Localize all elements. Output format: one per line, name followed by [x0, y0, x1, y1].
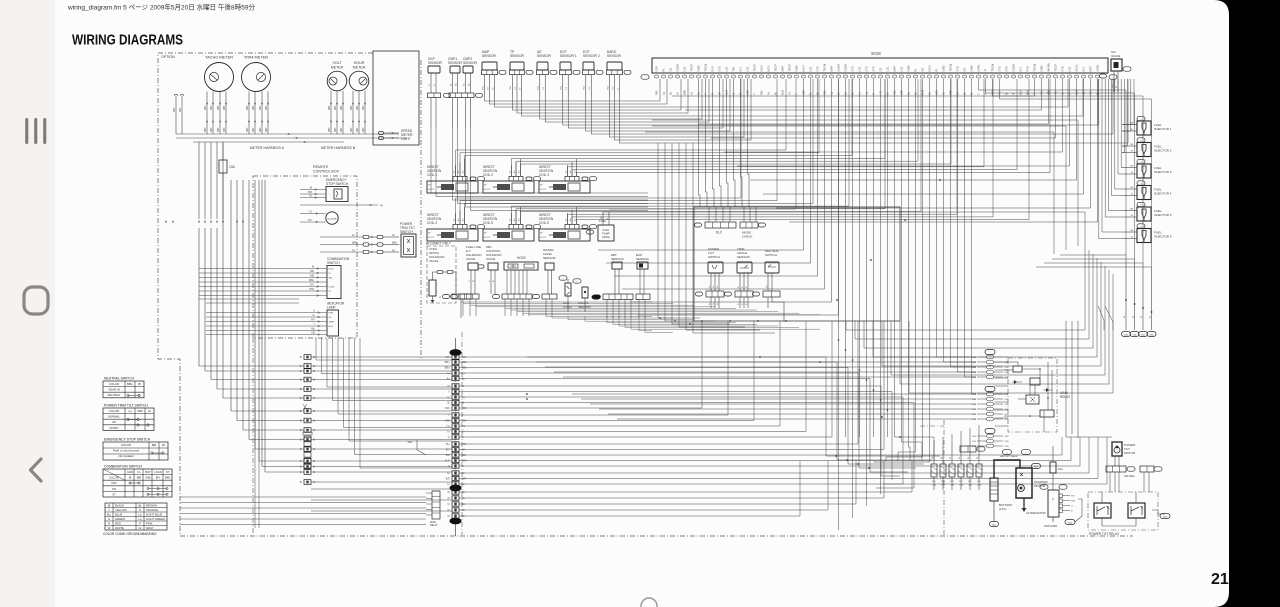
- 10A fuse near alternator: [1050, 462, 1056, 473]
- svg-text:SENSOR: SENSOR: [448, 61, 463, 65]
- svg-text:Br: Br: [313, 429, 316, 432]
- svg-text:METER HARNESS B: METER HARNESS B: [321, 146, 356, 150]
- svg-text:WBl: WBl: [1005, 362, 1010, 364]
- svg-text:GY: GY: [566, 86, 568, 90]
- svg-text:Br: Br: [300, 379, 303, 382]
- svg-text:WBl: WBl: [335, 105, 337, 110]
- svg-text:Bu: Bu: [510, 171, 512, 173]
- svg-text:FI.F: FI.F: [932, 481, 937, 483]
- svg-text:Gr: Gr: [447, 431, 450, 434]
- svg-text:Lg: Lg: [662, 92, 666, 95]
- svg-text:Bu: Bu: [669, 91, 673, 95]
- svg-text:SWITCH: SWITCH: [765, 253, 777, 257]
- svg-text:LOAD: LOAD: [154, 470, 162, 474]
- svg-text:STS: STS: [956, 66, 960, 71]
- svg-text:WBl: WBl: [357, 105, 359, 110]
- svg-text:FI.F: FI.F: [959, 481, 964, 483]
- svg-text:BlY: BlY: [446, 450, 450, 452]
- svg-text:BlBu: BlBu: [445, 362, 451, 364]
- svg-text:Gr: Gr: [462, 472, 465, 475]
- svg-text:WHITE: WHITE: [115, 526, 124, 530]
- svg-text:STS: STS: [865, 66, 869, 71]
- svg-text:WBl: WBl: [972, 367, 977, 369]
- svg-text:TDCP: TDCP: [690, 64, 694, 72]
- svg-text:STS: STS: [872, 66, 876, 71]
- svg-text:GND: GND: [795, 65, 799, 71]
- svg-text:CANH: CANH: [676, 64, 680, 72]
- svg-text:VALVE: VALVE: [429, 259, 438, 263]
- power tilt motor: [1116, 446, 1119, 449]
- svg-text:GND: GND: [907, 65, 911, 71]
- svg-text:GND: GND: [1068, 523, 1073, 525]
- floating button sliver at bottom: [641, 598, 657, 607]
- svg-text:TDCM: TDCM: [1033, 63, 1037, 72]
- svg-text:HO2S: HO2S: [517, 256, 526, 260]
- injector feed elbows from ECM: [1122, 79, 1134, 125]
- svg-text:Br: Br: [1131, 214, 1133, 217]
- svg-text:Bu: Bu: [107, 513, 111, 517]
- svg-text:Br: Br: [300, 370, 303, 373]
- svg-text:FI.F: FI.F: [950, 481, 955, 483]
- meter harness bus A: [176, 133, 399, 135]
- svg-text:BlR: BlR: [152, 443, 157, 447]
- right harness connector column: [985, 350, 995, 355]
- ECM wires right group to ground bus: [979, 79, 1127, 255]
- svg-text:VALVE: VALVE: [466, 257, 475, 261]
- svg-text:R: R: [108, 522, 110, 526]
- wires down to tilt relay from enclosure: [1066, 321, 1112, 437]
- svg-text:ST: ST: [166, 470, 170, 474]
- svg-text:STS: STS: [998, 66, 1002, 71]
- svg-text:PINK: PINK: [146, 522, 153, 526]
- alternator: [1048, 490, 1059, 517]
- svg-text:G: G: [1071, 506, 1073, 508]
- left feeds to right column: [527, 356, 976, 358]
- svg-text:10A: 10A: [1058, 467, 1063, 471]
- junction oval black: [592, 294, 601, 299]
- long harness runs under ECM: [652, 120, 1078, 246]
- svg-text:WBl: WBl: [683, 90, 687, 95]
- svg-text:EMERGENCY STOP SWITCH: EMERGENCY STOP SWITCH: [104, 438, 151, 442]
- svg-text:WBl: WBl: [211, 105, 213, 110]
- svg-text:WBl: WBl: [1005, 372, 1010, 374]
- svg-text:Lb: Lb: [138, 513, 142, 517]
- center column rows going right: [459, 357, 940, 456]
- svg-text:Bu: Bu: [575, 171, 577, 173]
- svg-text:ST: ST: [112, 492, 116, 496]
- svg-text:Br: Br: [1131, 193, 1133, 196]
- svg-text:YG: YG: [462, 426, 466, 428]
- svg-text:VALVE: VALVE: [486, 257, 495, 261]
- svg-text:COLOR: COLOR: [109, 382, 119, 386]
- svg-text:WBl: WBl: [972, 372, 977, 374]
- svg-text:GND: GND: [970, 65, 974, 71]
- svg-text:COLOR COMB: GROUND/MARKING: COLOR COMB: GROUND/MARKING: [103, 532, 157, 536]
- svg-text:LAMP: LAMP: [327, 306, 336, 310]
- svg-text:WARN: WARN: [1047, 63, 1051, 71]
- svg-text:WBl: WBl: [205, 105, 207, 110]
- svg-text:TDCM: TDCM: [991, 63, 995, 72]
- svg-text:NATURAL: NATURAL: [1124, 475, 1136, 478]
- svg-text:Bu: Bu: [510, 219, 512, 221]
- svg-text:Br: Br: [313, 466, 316, 469]
- svg-text:Br: Br: [300, 388, 303, 391]
- svg-text:Gr: Gr: [138, 526, 141, 530]
- svg-text:BlY: BlY: [310, 284, 314, 287]
- svg-text:Br: Br: [313, 460, 316, 463]
- svg-text:Br: Br: [313, 439, 316, 442]
- svg-text:CHECK: CHECK: [742, 235, 753, 239]
- svg-text:WBl: WBl: [972, 414, 977, 416]
- svg-text:Bu: Bu: [570, 171, 572, 173]
- svg-text:BlBu: BlBu: [445, 368, 451, 370]
- svg-text:WBl: WBl: [211, 127, 213, 132]
- svg-text:YBl: YBl: [1130, 166, 1134, 168]
- speed meter light legend box: [373, 51, 419, 145]
- power trim tilt switch connectors: [320, 236, 363, 238]
- svg-text:GRAY: GRAY: [146, 526, 154, 530]
- svg-text:INJECTOR 4: INJECTOR 4: [1154, 192, 1172, 196]
- svg-text:SENSOR 1: SENSOR 1: [560, 54, 577, 58]
- svg-text:BlY: BlY: [462, 450, 466, 452]
- svg-text:SWITCH: SWITCH: [400, 230, 413, 234]
- svg-text:WBl: WBl: [218, 105, 220, 110]
- svg-text:FI.F: FI.F: [941, 481, 946, 483]
- ECM wires mid-right to solenoid drains: [598, 79, 804, 250]
- ECM pin connector row: [654, 75, 658, 78]
- svg-text:WBl: WBl: [266, 105, 268, 110]
- svg-text:LIGHT GREEN: LIGHT GREEN: [146, 517, 165, 521]
- svg-text:TI: TI: [984, 69, 988, 72]
- svg-text:GBl: GBl: [311, 332, 315, 335]
- svg-text:WBl: WBl: [1005, 446, 1010, 448]
- svg-text:COIL 6: COIL 6: [539, 221, 549, 225]
- svg-text:WBl: WBl: [972, 394, 977, 396]
- left harness connector column: [304, 355, 311, 360]
- svg-text:RED: RED: [115, 522, 121, 526]
- svg-text:LG1: LG1: [900, 66, 904, 72]
- ground feed horizontals: [1060, 254, 1126, 256]
- svg-text:YBu: YBu: [445, 444, 450, 446]
- svg-text:BlW: BlW: [310, 288, 315, 291]
- svg-text:BlR: BlR: [446, 455, 450, 457]
- svg-text:BATTERY CABLE: BATTERY CABLE: [1000, 455, 1018, 458]
- volt meter: [327, 71, 347, 91]
- svg-text:BuR: BuR: [1019, 90, 1023, 95]
- svg-text:WIRING DIAGRAMS: WIRING DIAGRAMS: [72, 33, 183, 49]
- svg-text:GY: GY: [515, 86, 517, 90]
- harness boundary dash verticals: [252, 338, 254, 535]
- svg-text:Y: Y: [108, 508, 110, 512]
- svg-text:PUMP: PUMP: [602, 232, 610, 236]
- svg-text:Bu: Bu: [458, 219, 460, 221]
- svg-text:YBl: YBl: [1130, 144, 1134, 146]
- svg-text:PL: PL: [935, 68, 939, 72]
- svg-text:ALTERNATOR: ALTERNATOR: [1026, 511, 1047, 515]
- svg-text:TDCP: TDCP: [788, 64, 792, 72]
- svg-text:CANH: CANH: [844, 64, 848, 72]
- svg-text:COIL 4: COIL 4: [427, 221, 437, 225]
- fuel injector 3: [1137, 159, 1145, 163]
- connector above battery: [960, 446, 976, 452]
- svg-text:WBl: WBl: [1005, 414, 1010, 416]
- svg-text:PLUG: PLUG: [484, 237, 490, 239]
- svg-text:BF225AKT ONLY: BF225AKT ONLY: [426, 242, 452, 246]
- svg-text:FI.F: FI.F: [977, 481, 982, 483]
- svg-text:BlBu: BlBu: [127, 382, 133, 386]
- svg-text:PLUG: PLUG: [428, 189, 434, 191]
- svg-text:Bu: Bu: [514, 171, 516, 173]
- EOP LOW switch: [559, 276, 567, 280]
- svg-text:Br: Br: [300, 365, 303, 368]
- svg-text:VALVE: VALVE: [1111, 54, 1120, 58]
- svg-text:CANH: CANH: [837, 64, 841, 72]
- svg-text:SG: SG: [963, 68, 967, 72]
- svg-text:VOLT: VOLT: [332, 61, 342, 65]
- svg-text:Bu: Bu: [519, 219, 521, 221]
- svg-text:YBl: YBl: [1130, 209, 1134, 211]
- svg-text:WBl: WBl: [341, 105, 343, 110]
- svg-text:WBl: WBl: [363, 105, 365, 110]
- svg-text:SENSOR: SENSOR: [463, 61, 478, 65]
- svg-text:UP: UP: [112, 420, 116, 424]
- svg-text:G: G: [108, 517, 110, 521]
- svg-text:WBl: WBl: [1005, 399, 1010, 401]
- svg-text:PL: PL: [914, 68, 918, 72]
- svg-text:POWER TILT RELAY: POWER TILT RELAY: [1089, 532, 1120, 536]
- svg-text:YBl: YBl: [1130, 230, 1134, 232]
- MODE CHECK connector: [740, 222, 758, 228]
- svg-text:MOTOR: MOTOR: [1124, 451, 1136, 455]
- fuse box row: [931, 464, 937, 477]
- svg-text:CONTROL BOX: CONTROL BOX: [313, 170, 340, 174]
- svg-text:WBl: WBl: [253, 105, 255, 110]
- svg-text:W: W: [977, 457, 979, 459]
- svg-text:BlY: BlY: [311, 319, 315, 322]
- svg-text:YBl: YBl: [1130, 123, 1134, 125]
- svg-text:W: W: [950, 457, 952, 459]
- svg-text:Y: Y: [977, 93, 981, 95]
- svg-text:WBl: WBl: [329, 105, 331, 110]
- bracket connectors under solenoid row: [460, 294, 479, 299]
- svg-text:Gr: Gr: [447, 472, 450, 475]
- svg-text:WBl: WBl: [253, 127, 255, 132]
- left hook wires: [175, 96, 177, 134]
- svg-text:FLR: FLR: [1026, 66, 1030, 71]
- svg-text:BlBu: BlBu: [462, 368, 468, 370]
- svg-text:Br: Br: [300, 481, 303, 484]
- svg-text:30A: 30A: [407, 440, 412, 444]
- svg-text:WBl: WBl: [329, 127, 331, 132]
- svg-text:YBu: YBu: [310, 328, 315, 331]
- svg-text:Push or clip removed: Push or clip removed: [113, 449, 140, 453]
- svg-text:Gr: Gr: [676, 92, 680, 95]
- svg-text:IG: IG: [138, 470, 141, 474]
- svg-text:COLOR: COLOR: [109, 409, 119, 413]
- svg-text:SENSOR 2: SENSOR 2: [583, 54, 600, 58]
- fuel injector 5: [1137, 202, 1145, 206]
- svg-text:Br: Br: [1131, 128, 1133, 131]
- svg-text:IACV: IACV: [802, 65, 806, 71]
- svg-text:RELAY: RELAY: [1060, 395, 1071, 399]
- svg-text:BLUE: BLUE: [115, 513, 122, 517]
- coil feed lines from ECM band: [455, 150, 457, 176]
- svg-text:GY: GY: [487, 86, 489, 90]
- svg-text:Bu: Bu: [463, 219, 465, 221]
- left lower connector: [304, 436, 311, 441]
- svg-text:RBl: RBl: [760, 90, 764, 95]
- svg-text:PLUG: PLUG: [540, 237, 546, 239]
- svg-text:P: P: [139, 522, 141, 526]
- svg-text:Br: Br: [1131, 236, 1133, 239]
- svg-text:COMBINATION SWITCH: COMBINATION SWITCH: [104, 465, 143, 469]
- central harness connector column: [455, 338, 457, 352]
- svg-text:SENSOR: SENSOR: [607, 54, 622, 58]
- svg-text:BAT: BAT: [329, 277, 334, 280]
- svg-text:COIL 3: COIL 3: [539, 173, 549, 177]
- svg-text:Br: Br: [300, 429, 303, 432]
- svg-text:SENSOR: SENSOR: [428, 61, 443, 65]
- wires from remote area crossing to center bottom: [316, 338, 452, 360]
- svg-text:Br: Br: [139, 504, 142, 508]
- svg-text:(12V): (12V): [999, 507, 1006, 511]
- svg-text:BROWN: BROWN: [146, 504, 157, 508]
- svg-text:SENSOR: SENSOR: [636, 257, 650, 261]
- svg-text:METER HARNESS A: METER HARNESS A: [250, 146, 285, 150]
- svg-text:SENSOR: SENSOR: [482, 54, 497, 58]
- svg-text:COIL 5: COIL 5: [483, 221, 493, 225]
- svg-text:Br: Br: [300, 356, 303, 359]
- svg-text:PLUG: PLUG: [540, 189, 546, 191]
- svg-text:OFF: OFF: [111, 481, 117, 485]
- svg-text:WBl: WBl: [972, 419, 977, 421]
- svg-text:WBl: WBl: [1005, 441, 1010, 443]
- ECM wires to right column rows: [937, 79, 977, 357]
- svg-text:IACV: IACV: [760, 65, 764, 71]
- svg-text:GND: GND: [1149, 335, 1154, 337]
- svg-text:Br: Br: [300, 439, 303, 442]
- svg-text:Br: Br: [313, 356, 316, 359]
- svg-text:IG1: IG1: [739, 67, 743, 72]
- svg-text:wiring_diagram.fm 5 ページ 2009年5: wiring_diagram.fm 5 ページ 2009年5月20日 水曜日 午…: [67, 3, 255, 12]
- OPTION dashed boundary box: [158, 53, 700, 536]
- svg-text:WBl: WBl: [1005, 419, 1010, 421]
- nav icon: back (chevron): [31, 459, 42, 481]
- svg-text:STS: STS: [1005, 66, 1009, 71]
- svg-text:IACV: IACV: [767, 65, 771, 71]
- svg-text:W: W: [108, 526, 111, 530]
- svg-text:Bu: Bu: [566, 219, 568, 221]
- svg-text:10A: 10A: [462, 356, 467, 359]
- meter wires down with connectors: [206, 92, 208, 135]
- svg-text:G: G: [448, 437, 450, 439]
- svg-text:WBl: WBl: [218, 127, 220, 132]
- svg-text:Y: Y: [753, 93, 757, 95]
- ECM wire mesh left group to DLC: [699, 79, 701, 207]
- svg-text:STS: STS: [718, 66, 722, 71]
- svg-text:(HIGH): (HIGH): [602, 235, 610, 239]
- svg-text:ORANGE: ORANGE: [146, 508, 158, 512]
- svg-text:LIGHT: LIGHT: [401, 137, 411, 141]
- svg-text:RBl: RBl: [655, 90, 659, 95]
- buzzer: [326, 212, 338, 224]
- svg-text:Bu: Bu: [566, 171, 568, 173]
- svg-text:Br: Br: [300, 410, 303, 413]
- svg-text:WBl: WBl: [972, 399, 977, 401]
- svg-text:WBl: WBl: [972, 404, 977, 406]
- svg-text:SENSOR: SENSOR: [737, 255, 751, 259]
- svg-text:YBl: YBl: [1130, 187, 1134, 189]
- svg-text:LG1: LG1: [886, 66, 890, 72]
- svg-text:STOP SWITCH: STOP SWITCH: [326, 182, 349, 186]
- svg-text:O2: O2: [879, 67, 883, 71]
- svg-text:SENSOR: SENSOR: [543, 256, 557, 260]
- svg-text:NORMAL: NORMAL: [108, 415, 120, 419]
- fuel injector 6: [1137, 224, 1145, 228]
- svg-text:1A: 1A: [306, 408, 309, 411]
- junction dots at mesh corners: [701, 320, 703, 322]
- svg-text:WBl: WBl: [351, 127, 353, 132]
- svg-text:Bu: Bu: [454, 219, 456, 221]
- svg-text:SWITCH: SWITCH: [708, 255, 720, 259]
- fuel injector 4: [1137, 181, 1145, 185]
- svg-text:STS: STS: [851, 66, 855, 71]
- svg-text:Br: Br: [300, 471, 303, 474]
- svg-text:POWER TRIM TILT SWITCH: POWER TRIM TILT SWITCH: [104, 404, 148, 408]
- svg-text:INJECTOR 5: INJECTOR 5: [1154, 213, 1172, 217]
- svg-text:Bu: Bu: [454, 171, 456, 173]
- svg-text:WBl: WBl: [174, 107, 176, 112]
- svg-text:GY: GY: [543, 86, 545, 90]
- svg-text:W: W: [959, 457, 961, 459]
- svg-text:Gr: Gr: [519, 87, 522, 90]
- svg-text:WBl: WBl: [247, 105, 249, 110]
- svg-text:WBl: WBl: [145, 476, 151, 480]
- svg-text:Br: Br: [313, 410, 316, 413]
- svg-text:GND: GND: [1163, 517, 1168, 519]
- svg-text:WBl: WBl: [972, 357, 977, 359]
- svg-text:W: W: [941, 457, 943, 459]
- svg-text:GY: GY: [612, 86, 614, 90]
- svg-text:NEUTRAL: NEUTRAL: [107, 393, 120, 397]
- svg-text:TDCM: TDCM: [704, 63, 708, 72]
- svg-text:STS: STS: [816, 66, 820, 71]
- svg-text:GBl: GBl: [1112, 84, 1114, 88]
- svg-text:LG1: LG1: [809, 66, 813, 72]
- svg-text:Br: Br: [313, 420, 316, 423]
- svg-text:LG1: LG1: [725, 66, 729, 72]
- svg-text:BlBu: BlBu: [462, 362, 468, 364]
- svg-text:WBl: WBl: [180, 107, 182, 112]
- svg-text:ECM: ECM: [871, 51, 881, 56]
- hour meter: [349, 71, 369, 91]
- svg-text:Gr: Gr: [462, 431, 465, 434]
- svg-text:GND: GND: [942, 65, 946, 71]
- svg-text:Gr: Gr: [767, 92, 771, 95]
- svg-text:Br: Br: [313, 448, 316, 451]
- svg-text:ACGL: ACGL: [1075, 64, 1079, 72]
- svg-text:Bl: Bl: [162, 443, 165, 447]
- svg-text:G: G: [462, 437, 464, 439]
- svg-text:BlR: BlR: [446, 479, 450, 481]
- svg-text:GND: GND: [1040, 65, 1044, 71]
- svg-text:LOAD: LOAD: [329, 286, 335, 289]
- svg-text:BuR: BuR: [781, 90, 785, 95]
- svg-text:Gr: Gr: [788, 92, 792, 95]
- svg-text:Bl: Bl: [138, 382, 141, 386]
- svg-text:COIL 2: COIL 2: [483, 173, 493, 177]
- svg-text:FLR: FLR: [711, 66, 715, 71]
